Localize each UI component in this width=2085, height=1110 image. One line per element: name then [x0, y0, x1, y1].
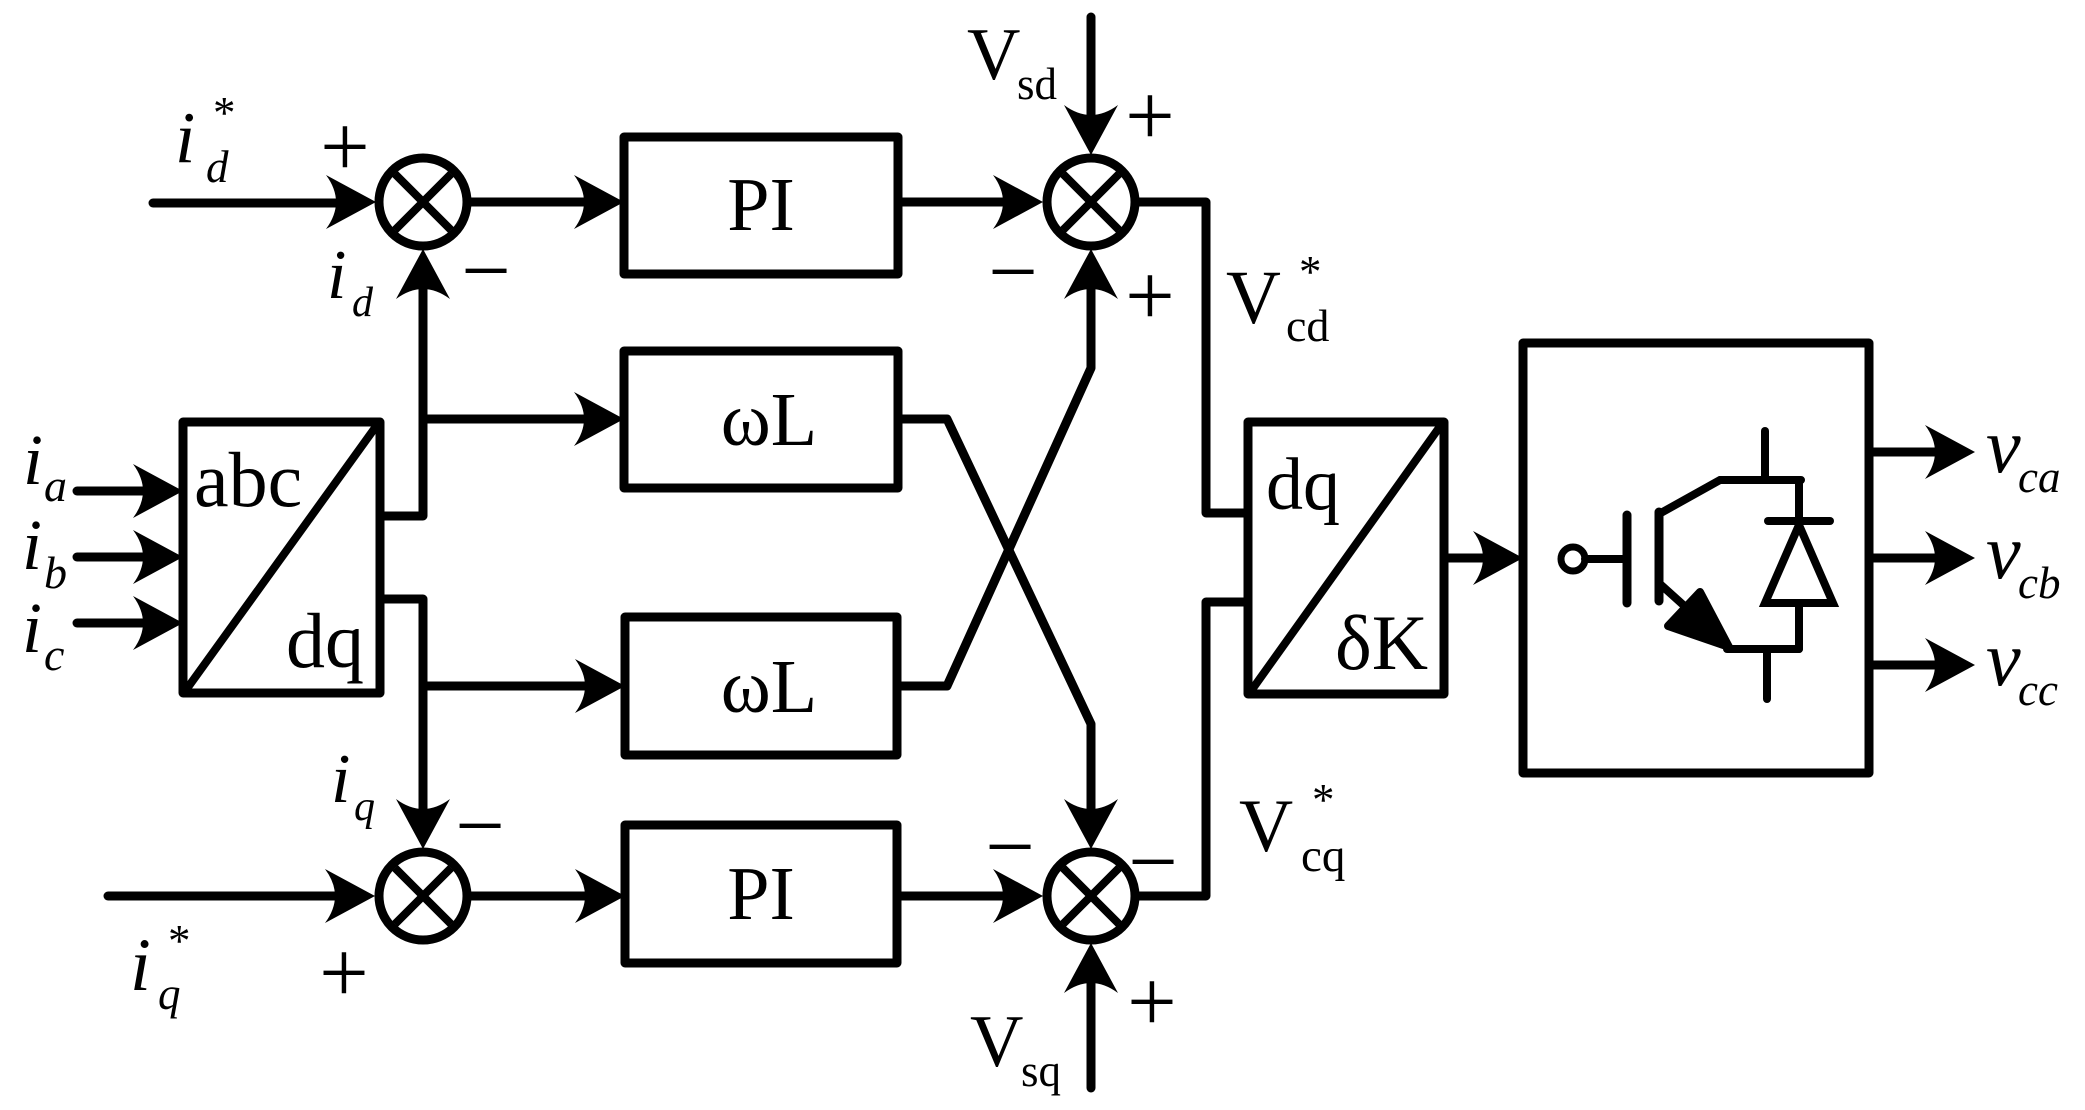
arrowhead: output v_cb — [1925, 531, 1975, 585]
svg-text:+: + — [1127, 954, 1177, 1051]
svg-text:v: v — [1986, 508, 2021, 595]
arrowhead: into wL1 — [574, 392, 624, 446]
wire: branch i_q to wL2 input — [423, 682, 589, 691]
svg-text:i: i — [22, 588, 42, 668]
svg-text:v: v — [1986, 615, 2021, 702]
svg-text:V: V — [967, 14, 1020, 96]
arrowhead: i_b into abc/dq — [133, 530, 183, 584]
diode triangle — [1765, 525, 1833, 603]
svg-text:i: i — [175, 97, 195, 178]
wire: dq/dK output to converter — [1444, 554, 1487, 563]
svg-text:cd: cd — [1286, 300, 1329, 351]
arrowhead: V_sd down into S2 — [1064, 105, 1118, 155]
wire: converter output v_cb — [1869, 554, 1939, 563]
arrowhead: i_q down into S3 — [396, 799, 450, 849]
svg-text:q: q — [354, 784, 375, 830]
svg-text:+: + — [320, 99, 370, 196]
IGBT gate terminal circle — [1561, 547, 1585, 571]
arrowhead: into upper PI — [574, 175, 624, 229]
svg-text:cq: cq — [1301, 830, 1345, 882]
IGBT emitter terminal — [1763, 649, 1771, 699]
svg-text:−: − — [455, 778, 505, 875]
svg-text:i: i — [130, 924, 151, 1007]
svg-text:−: − — [1128, 814, 1178, 911]
svg-text:V: V — [1239, 785, 1293, 868]
summing junction S2 (V_cd*) — [1047, 158, 1135, 246]
svg-text:−: − — [988, 224, 1038, 321]
svg-text:*: * — [1312, 775, 1335, 825]
IGBT gate lead — [1585, 555, 1623, 563]
converter IGBT symbol — [1561, 431, 1833, 699]
svg-text:d: d — [352, 280, 374, 326]
block: dq to dK modulation — [1248, 422, 1444, 694]
svg-text:d: d — [206, 142, 229, 192]
svg-text:ωL: ωL — [721, 645, 817, 729]
summing junction S4 (V_cq*) — [1047, 852, 1135, 940]
svg-text:V: V — [970, 1001, 1023, 1083]
svg-text:cb: cb — [2018, 558, 2060, 608]
arrowhead: i_q* into S3 — [325, 869, 375, 923]
svg-text:PI: PI — [727, 852, 795, 936]
wire: summing junction S1 to PI box — [471, 198, 588, 207]
arrowhead: into wL2 — [575, 659, 625, 713]
arrowhead: V_sq up into S4 — [1064, 943, 1118, 993]
diagonal of dq/dK block — [1251, 425, 1441, 691]
svg-text:c: c — [44, 629, 64, 680]
svg-text:*: * — [168, 916, 191, 966]
svg-text:*: * — [1299, 247, 1322, 297]
block: lower wL decoupling gain — [625, 617, 897, 755]
wire: S4 output to dq/dK block (node V_cq*) — [1139, 602, 1248, 896]
svg-text:dq: dq — [1266, 444, 1340, 526]
arrowhead: lower PI into S4 — [993, 869, 1043, 923]
IGBT gate bar — [1623, 515, 1632, 603]
arrowhead: cross-coupling down into S4 — [1064, 799, 1118, 849]
svg-text:+: + — [1125, 68, 1175, 165]
svg-text:δK: δK — [1335, 599, 1428, 686]
svg-text:dq: dq — [286, 597, 364, 684]
wire: PI box to summing junction S2 — [898, 198, 1007, 207]
arrowhead: into lower PI — [575, 869, 625, 923]
arrowhead: cross-coupling up into S2 — [1064, 249, 1118, 299]
wire: i_a input — [77, 487, 147, 496]
svg-text:i: i — [23, 420, 43, 500]
summing junction S1 (id* - id) — [379, 158, 467, 246]
wire: lower PI box to summing junction S4 — [897, 892, 1007, 901]
svg-text:+: + — [319, 925, 369, 1022]
IGBT emitter arrowhead — [1668, 592, 1729, 647]
arrowhead: i_d up into S1 — [396, 249, 450, 299]
wire: abc/dq upper output i_d up to S1 and branch to wL1 — [380, 286, 423, 516]
diode stem top — [1795, 480, 1803, 521]
wire: summing junction S3 to lower PI box — [471, 892, 589, 901]
wire: V_sd feedforward down into S2 — [1087, 17, 1096, 119]
svg-text:*: * — [213, 88, 236, 138]
wire: i_q* reference input — [108, 892, 339, 901]
arrowhead: i_a into abc/dq — [133, 464, 183, 518]
block: lower PI controller — [625, 825, 897, 963]
diode cathode bar — [1768, 517, 1830, 525]
wire: V_sq feedforward up into S4 — [1087, 980, 1096, 1088]
diagonal of abc/dq block — [186, 425, 377, 690]
arrowhead: output v_cc — [1925, 638, 1975, 692]
IGBT collector diagonal — [1659, 480, 1801, 514]
svg-text:ωL: ωL — [721, 378, 817, 462]
arrowhead: i_d* into S1 — [326, 175, 376, 229]
summing junction S3 (iq* - iq) — [379, 852, 467, 940]
svg-text:V: V — [1226, 256, 1281, 340]
wire: i_c input — [77, 619, 147, 628]
wire: abc/dq lower output i_q down to S3 and branch to wL2 — [380, 599, 423, 812]
svg-text:q: q — [158, 969, 181, 1019]
wire: wL1 output cross-coupling down to S4 — [898, 419, 1091, 812]
svg-text:i: i — [331, 741, 350, 818]
block: upper wL decoupling gain — [624, 351, 898, 488]
svg-text:ca: ca — [2018, 452, 2060, 502]
IGBT emitter line — [1727, 645, 1799, 653]
diode stem bottom — [1795, 603, 1803, 649]
svg-text:−: − — [461, 223, 511, 320]
svg-text:i: i — [22, 505, 42, 585]
IGBT body bar — [1655, 512, 1664, 601]
wire: wL2 output cross-coupling up to S2 — [897, 286, 1091, 686]
block: abc to dq transformation — [183, 422, 380, 693]
wire: converter output v_cc — [1869, 661, 1939, 670]
svg-text:PI: PI — [727, 163, 795, 247]
IGBT emitter diagonal — [1660, 584, 1700, 620]
svg-text:v: v — [1986, 402, 2021, 489]
svg-text:cc: cc — [2018, 665, 2058, 715]
svg-text:abc: abc — [194, 436, 302, 523]
svg-text:+: + — [1125, 248, 1175, 345]
svg-text:i: i — [327, 237, 346, 314]
arrowhead: output v_ca — [1925, 425, 1975, 479]
IGBT collector terminal — [1761, 431, 1769, 480]
block: converter outline — [1523, 343, 1869, 773]
arrowhead: dq/dK output into converter — [1473, 531, 1523, 585]
wire: branch i_d to wL1 input — [423, 415, 588, 424]
block: upper PI controller — [624, 137, 898, 274]
arrowhead: i_c into abc/dq — [133, 596, 183, 650]
wire: i_b input — [77, 553, 147, 562]
arrowhead: PI into S2 — [993, 175, 1043, 229]
svg-text:sq: sq — [1021, 1046, 1061, 1096]
svg-text:−: − — [985, 799, 1035, 896]
svg-text:sd: sd — [1017, 59, 1057, 109]
svg-text:b: b — [44, 547, 67, 598]
wire: converter output v_ca — [1869, 448, 1939, 457]
plus and minus signs — [319, 68, 1178, 1051]
wire: S2 output to dq/dK block (node V_cd*) — [1139, 202, 1248, 513]
wire: i_d* reference input — [153, 199, 340, 208]
svg-text:a: a — [44, 460, 67, 511]
